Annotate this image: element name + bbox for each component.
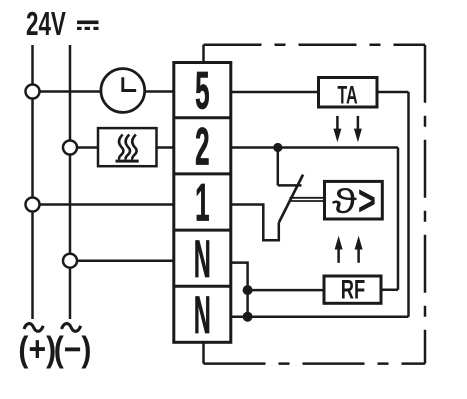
svg-text:24V: 24V xyxy=(26,5,66,42)
down arrow 2 xyxy=(354,116,362,142)
svg-text:5: 5 xyxy=(195,60,209,120)
junction dot N1/RF xyxy=(243,285,253,295)
terminal divider 5/2 xyxy=(174,116,231,119)
clock symbol (timer) xyxy=(101,69,145,113)
junction dot N2 xyxy=(243,312,253,322)
terminal circle on wire B row 2 xyxy=(63,141,77,155)
switch blade (moving contact) xyxy=(279,175,303,223)
DC symbol xyxy=(77,21,99,31)
wire: clock to terminal 5 xyxy=(145,90,174,93)
wire B (-) vertical xyxy=(69,45,72,319)
enclosure boundary right (dash-dot) xyxy=(424,45,427,364)
switch fixed contact stub xyxy=(278,184,302,187)
wire: vertical down to RF right xyxy=(397,148,400,290)
tilde over plus xyxy=(24,324,43,332)
tilde over minus xyxy=(62,324,81,332)
svg-text:(+): (+) xyxy=(18,329,56,369)
wire: wire B to heater xyxy=(77,146,98,149)
up arrow 2 xyxy=(355,236,363,263)
wire A (+) vertical xyxy=(31,45,34,319)
wire: wire A to terminal 1 xyxy=(40,203,174,206)
terminal divider N/N xyxy=(174,285,231,288)
wire: bottom horizontal to terminal N2 xyxy=(231,315,409,318)
wire: terminal 1 to switch (U jog) xyxy=(231,205,279,241)
wire: terminal 5 to TA xyxy=(231,91,319,94)
svg-text:RF: RF xyxy=(341,274,365,304)
wire: TA right to vertical xyxy=(377,91,409,94)
svg-text:2: 2 xyxy=(195,116,209,176)
svg-text:N: N xyxy=(194,229,211,289)
svg-text:(−): (−) xyxy=(54,329,92,369)
heating symbol (floor heating) xyxy=(98,128,157,166)
wire: terminal N1 jog to junction xyxy=(231,263,248,317)
stub from terminal block to enclosure bottom xyxy=(202,342,205,363)
terminal circle on wire A row 5 xyxy=(26,85,40,99)
wire: RF right stub xyxy=(381,289,398,292)
enclosure boundary top (dash-dot) xyxy=(204,43,426,46)
wire: right vertical from TA down xyxy=(407,92,410,317)
wire: junction to RF left xyxy=(248,289,324,292)
junction dot on terminal 2 wire xyxy=(273,143,282,152)
svg-text:>: > xyxy=(358,176,376,224)
terminal block outline xyxy=(174,63,231,343)
enclosure boundary bottom (dash-dot) xyxy=(204,362,426,365)
stub from enclosure top to terminal block xyxy=(202,45,205,63)
RF box xyxy=(324,276,381,303)
TA box xyxy=(319,78,378,108)
wire: terminal 2 row to right vertical xyxy=(231,146,398,149)
terminal circle on wire B row N xyxy=(63,254,77,268)
terminal divider 1/N xyxy=(174,229,231,232)
wire: wire B to terminal N1 xyxy=(77,259,174,262)
svg-text:N: N xyxy=(194,285,211,345)
thermostat box xyxy=(325,181,383,219)
terminal divider 2/1 xyxy=(174,172,231,175)
switch fixed contact wire down from junction xyxy=(277,148,280,186)
svg-text:ϑ: ϑ xyxy=(332,182,357,220)
mechanical link double line xyxy=(290,197,325,199)
terminal circle on wire A row 1 xyxy=(26,198,40,212)
wire: heater to terminal 2 xyxy=(157,146,174,149)
down arrow 1 (TA to thermostat) xyxy=(333,116,341,142)
svg-text:1: 1 xyxy=(195,172,209,232)
wire: terminal 5 row from wire A to clock xyxy=(40,90,101,93)
svg-text:TA: TA xyxy=(337,82,357,109)
up arrow 1 (RF to thermostat) xyxy=(335,236,343,263)
